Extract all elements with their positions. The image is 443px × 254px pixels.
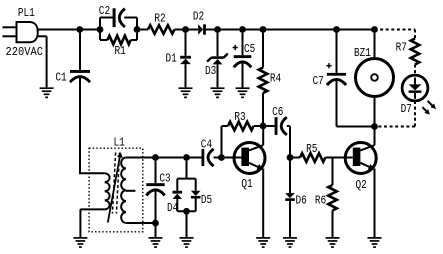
svg-text:D6: D6 (296, 194, 307, 207)
svg-text:D2: D2 (193, 10, 204, 23)
svg-text:D3: D3 (205, 65, 216, 78)
svg-text:D4: D4 (167, 202, 178, 215)
svg-text:R2: R2 (154, 12, 165, 25)
svg-text:C2: C2 (99, 5, 110, 18)
svg-text:C1: C1 (55, 71, 66, 84)
svg-text:R1: R1 (115, 45, 126, 58)
svg-text:R4: R4 (270, 73, 281, 86)
svg-text:C4: C4 (201, 138, 212, 151)
svg-text:D7: D7 (401, 103, 412, 116)
svg-text:C7: C7 (313, 75, 324, 88)
svg-text:D5: D5 (201, 194, 212, 207)
svg-text:220VAC: 220VAC (6, 46, 44, 59)
svg-text:R3: R3 (234, 111, 245, 124)
svg-text:R6: R6 (315, 194, 326, 207)
svg-text:Q1: Q1 (241, 178, 252, 191)
svg-text:R5: R5 (306, 143, 317, 156)
svg-text:C3: C3 (159, 173, 170, 186)
svg-text:L1: L1 (114, 136, 125, 149)
svg-text:BZ1: BZ1 (354, 47, 371, 60)
svg-text:R7: R7 (396, 41, 407, 54)
svg-text:PL1: PL1 (18, 7, 35, 20)
svg-text:Q2: Q2 (356, 179, 367, 192)
svg-text:C5: C5 (244, 43, 255, 56)
svg-text:D1: D1 (166, 52, 177, 65)
svg-text:C6: C6 (272, 106, 283, 119)
